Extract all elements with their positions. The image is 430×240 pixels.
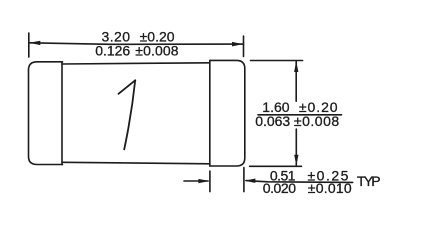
svg-text:±0.008: ±0.008	[135, 43, 179, 59]
svg-text:0.126: 0.126	[95, 43, 130, 59]
svg-text:TYP: TYP	[357, 173, 381, 189]
svg-text:0.020: 0.020	[263, 180, 297, 196]
svg-text:±0.010: ±0.010	[308, 180, 352, 196]
